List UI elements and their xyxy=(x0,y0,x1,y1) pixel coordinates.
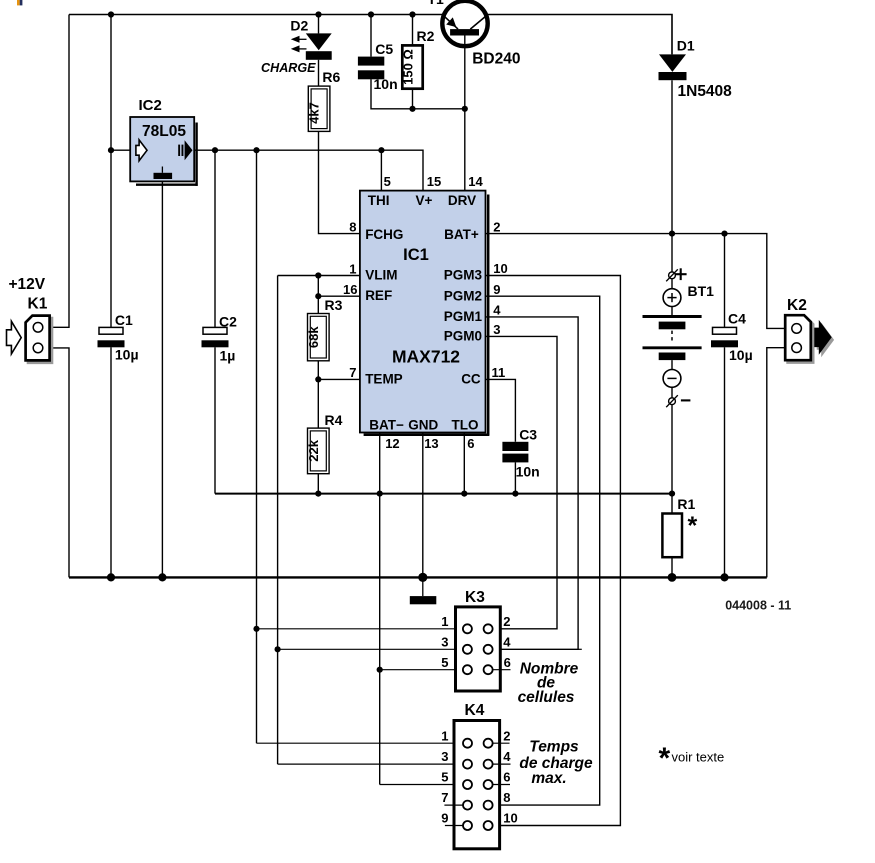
wire TLO pin 6 to BAT- xyxy=(463,433,465,494)
svg-text:DRV: DRV xyxy=(448,193,476,208)
junction dot 5V / THI pin 5 xyxy=(378,147,384,153)
wire BAT- net horizontal xyxy=(215,493,672,495)
svg-text:8: 8 xyxy=(349,219,356,234)
svg-text:D2: D2 xyxy=(290,18,308,34)
svg-text:9: 9 xyxy=(493,282,500,297)
wire IC2 input from C1 column xyxy=(111,149,130,151)
svg-text:7: 7 xyxy=(349,365,356,380)
wire C3 to BAT- xyxy=(514,462,516,493)
svg-text:1N5408: 1N5408 xyxy=(678,83,733,100)
op-amp/controller IC1 MAX712 body xyxy=(487,195,490,436)
svg-text:PGM0: PGM0 xyxy=(444,329,482,344)
junction dot top rail / C1 column xyxy=(108,11,114,17)
wire PGM0 pin 3 to K3 pin 2 xyxy=(486,336,558,628)
junction dot 5V / K-header column xyxy=(253,147,259,153)
svg-text:4: 4 xyxy=(503,749,511,764)
wire D2 cathode to R6 xyxy=(318,60,320,86)
svg-text:max.: max. xyxy=(531,770,566,787)
svg-text:1: 1 xyxy=(349,261,356,276)
connector K4 xyxy=(454,721,500,849)
svg-text:9: 9 xyxy=(441,811,448,826)
junction dot rail / R1 xyxy=(668,573,677,582)
svg-text:1µ: 1µ xyxy=(220,348,236,364)
svg-text:13: 13 xyxy=(424,436,438,451)
svg-text:2: 2 xyxy=(503,728,510,743)
svg-text:K3: K3 xyxy=(465,589,485,606)
svg-text:4: 4 xyxy=(493,303,501,318)
svg-text:PGM3: PGM3 xyxy=(444,268,483,283)
wire D1 cathode to BAT+ xyxy=(671,80,673,233)
wire K3 pin 3 stub xyxy=(278,648,464,650)
wire K4 pin 3 stub xyxy=(278,763,464,765)
svg-text:K4: K4 xyxy=(465,702,485,719)
junction dot BAT- / TLO pin 6 xyxy=(461,491,467,497)
voltage regulator IC2 78L05 xyxy=(195,123,197,186)
junction dot VLIM / R3 top xyxy=(315,272,321,278)
svg-text:MAX712: MAX712 xyxy=(392,346,460,366)
svg-text:5: 5 xyxy=(441,655,448,670)
svg-text:6: 6 xyxy=(504,655,511,670)
wire K3 pin 5 stub xyxy=(380,669,464,671)
junction dot rail / C1 xyxy=(107,573,115,581)
svg-text:R4: R4 xyxy=(325,412,343,428)
resistor R3 68k xyxy=(308,314,330,361)
svg-text:22k: 22k xyxy=(306,439,321,461)
junction dot BAT- / R4 xyxy=(315,491,321,497)
wire C4 column xyxy=(724,234,726,328)
svg-text:10: 10 xyxy=(493,261,507,276)
connector K2 xyxy=(788,318,814,363)
svg-text:1: 1 xyxy=(441,614,448,629)
svg-text:044008 - 11: 044008 - 11 xyxy=(725,598,791,612)
svg-text:3: 3 xyxy=(441,634,448,649)
wire REF pin 16 line xyxy=(318,295,360,297)
svg-text:BT1: BT1 xyxy=(688,283,715,299)
resistor R6 4k7 xyxy=(308,86,330,131)
wire K1 pin2 to ground rail xyxy=(43,348,69,578)
wire GND pin 13 to rail xyxy=(422,433,424,578)
svg-text:cellules: cellules xyxy=(518,689,575,706)
svg-text:CHARGE: CHARGE xyxy=(261,61,316,75)
svg-text:FCHG: FCHG xyxy=(365,227,403,242)
wire R2 bottom lead xyxy=(412,89,414,109)
capacitor C5 10n xyxy=(358,57,384,66)
K4 open stubs xyxy=(493,742,510,744)
svg-text:C5: C5 xyxy=(375,41,393,57)
IC2 ground tab xyxy=(161,167,163,173)
resistor R1 (voir texte) xyxy=(662,514,682,558)
wire PGM2 pin 9 to K4 pin 8 xyxy=(486,296,600,805)
svg-text:IC1: IC1 xyxy=(403,246,429,264)
svg-text:GND: GND xyxy=(408,418,438,433)
resistor R2 150 ohm xyxy=(402,45,422,88)
wire bottom ground rail xyxy=(69,576,767,578)
svg-text:10µ: 10µ xyxy=(115,347,139,363)
wire battery minus to R1 xyxy=(671,494,673,514)
junction dot BAT- / pin 12 column xyxy=(377,491,383,497)
wire +12V top rail (left of T1) xyxy=(69,14,444,16)
svg-text:BAT−: BAT− xyxy=(369,418,404,433)
svg-text:TEMP: TEMP xyxy=(365,372,403,387)
svg-text:BAT+: BAT+ xyxy=(444,227,479,242)
svg-text:R6: R6 xyxy=(322,69,340,85)
wire K1 pin1 to +12V rail xyxy=(43,15,69,328)
connector K1 xyxy=(28,318,52,363)
junction dot REF / R3 column xyxy=(315,293,321,299)
wire PGM1 pin 4 to K3 pin 4 xyxy=(486,317,579,649)
junction dot BAT+ / battery xyxy=(669,231,675,237)
wire R1 to rail xyxy=(671,557,673,577)
svg-text:2: 2 xyxy=(493,219,500,234)
IC2 input arrow pin xyxy=(136,140,147,161)
wire T1 base to DRV pin 14 xyxy=(464,36,466,191)
svg-text:150 Ω: 150 Ω xyxy=(401,49,416,85)
junction dot pin12 column / K3 pin5 xyxy=(377,667,383,673)
svg-text:*: * xyxy=(688,512,698,540)
wire C5 from rail xyxy=(370,15,372,57)
svg-text:68k: 68k xyxy=(306,326,321,348)
wire top rail collector side to D1 xyxy=(486,15,672,55)
wire D2 anode from rail xyxy=(318,15,320,34)
svg-text:10: 10 xyxy=(503,811,517,826)
K3 pin 6 open stub xyxy=(493,669,511,671)
IC2 output arrow pin xyxy=(178,145,180,156)
transistor T1 BD240 (PNP) xyxy=(442,1,487,46)
wire TEMP pin 7 line xyxy=(318,378,360,380)
svg-text:16: 16 xyxy=(343,282,357,297)
junction dot top rail / C5 column xyxy=(368,11,374,17)
junction dot base line / T1 base xyxy=(462,106,468,112)
junction dot VLIM column / K3 pin3 xyxy=(275,646,281,652)
svg-text:4: 4 xyxy=(503,634,511,649)
svg-text:1: 1 xyxy=(441,728,448,743)
svg-text:V+: V+ xyxy=(416,193,433,208)
capacitor C3 10n xyxy=(502,442,528,451)
junction dot rail / C4 xyxy=(720,573,728,581)
wire IC2 ground to rail xyxy=(161,181,163,577)
junction dot base line / R2 xyxy=(409,106,415,112)
svg-text:TLO: TLO xyxy=(452,418,479,433)
battery BT1 xyxy=(671,234,673,272)
svg-text:C4: C4 xyxy=(728,310,746,326)
svg-text:8: 8 xyxy=(503,790,510,805)
junction dot BAT- / battery R1 xyxy=(669,491,675,497)
wire THI pin 5 stub xyxy=(380,150,382,190)
svg-text:10n: 10n xyxy=(374,76,398,92)
svg-text:R2: R2 xyxy=(417,28,435,44)
wire K3 pin 1 stub xyxy=(257,628,464,630)
svg-text:Temps: Temps xyxy=(529,738,579,755)
svg-text:6: 6 xyxy=(503,770,510,785)
svg-text:R1: R1 xyxy=(677,496,695,512)
svg-text:C1: C1 xyxy=(115,312,133,328)
capacitor C2 xyxy=(203,327,227,334)
junction dot BAT- / C3 xyxy=(512,491,518,497)
output arrow symbol at K2 xyxy=(817,323,834,358)
junction dot C1 / IC2 input xyxy=(108,147,114,153)
wire 5V column down to K3 pin1 / K4 pin1 xyxy=(256,150,258,743)
svg-text:3: 3 xyxy=(493,322,500,337)
svg-text:CC: CC xyxy=(461,372,481,387)
capacitor C4 10u xyxy=(713,327,737,334)
LED emission arrows xyxy=(299,38,306,40)
wire K2 pin2 to rail xyxy=(767,348,785,578)
junction dot top rail / D2 column xyxy=(315,11,321,17)
wire R2 from rail xyxy=(412,15,414,46)
svg-text:voir texte: voir texte xyxy=(672,750,725,765)
wire R3 top lead xyxy=(317,276,319,314)
svg-text:2: 2 xyxy=(503,614,510,629)
svg-text:K2: K2 xyxy=(787,297,807,314)
svg-text:7: 7 xyxy=(441,790,448,805)
svg-text:14: 14 xyxy=(468,174,483,189)
resistor R4 22k xyxy=(308,428,330,474)
wire VLIM pin 1 line xyxy=(278,275,360,277)
svg-text:C3: C3 xyxy=(519,427,537,443)
svg-text:R3: R3 xyxy=(325,297,343,313)
wire BAT- pin 12 column down to K3/K4 pin5 xyxy=(379,433,381,785)
input arrow symbol at K1 xyxy=(7,321,22,354)
svg-text:PGM2: PGM2 xyxy=(444,288,482,303)
svg-text:VLIM: VLIM xyxy=(365,268,397,283)
diode D1 1N5408 xyxy=(659,54,686,72)
svg-text:4k7: 4k7 xyxy=(307,102,322,124)
junction dot rail / IC2 ground xyxy=(158,573,166,581)
wire R4 bottom lead xyxy=(317,474,319,494)
wire VLIM column down to K3 pin3 / K4 pin3 xyxy=(277,276,279,765)
svg-text:BD240: BD240 xyxy=(472,51,520,68)
page margin mark (cropped glyph, top-left) xyxy=(17,0,20,5)
svg-text:11: 11 xyxy=(492,365,506,380)
wire BAT+ pin 2 to battery / C4 / K2 xyxy=(486,234,786,329)
wire R3-R4 middle lead xyxy=(317,361,319,428)
junction dot 5V / C2 xyxy=(212,147,218,153)
svg-text:T1: T1 xyxy=(428,0,445,7)
junction dot BAT+ / C4 xyxy=(721,231,727,237)
svg-text:*: * xyxy=(659,742,671,775)
wire R6 to FCHG pin 8 xyxy=(319,131,360,233)
svg-text:REF: REF xyxy=(365,288,392,303)
svg-text:K1: K1 xyxy=(28,296,48,313)
svg-text:15: 15 xyxy=(427,174,441,189)
connector K3 xyxy=(456,607,501,691)
wire PGM3 pin 10 to K4 pin 10 xyxy=(486,276,621,826)
svg-text:12: 12 xyxy=(385,436,399,451)
junction dot TEMP / divider xyxy=(315,376,321,382)
svg-text:THI: THI xyxy=(368,193,390,208)
svg-text:10µ: 10µ xyxy=(729,347,753,363)
svg-text:D1: D1 xyxy=(677,37,695,53)
junction dot top rail / R2 column xyxy=(409,11,415,17)
wire K4 pin 1 stub xyxy=(257,742,464,744)
svg-text:78L05: 78L05 xyxy=(142,123,186,140)
wire corner tick xyxy=(578,648,582,650)
wire C5 to base node xyxy=(371,79,465,109)
wire CC pin 11 to C3 xyxy=(486,379,516,441)
svg-text:IC2: IC2 xyxy=(139,97,162,114)
junction dot rail / GND pin 13 xyxy=(418,573,427,582)
wire C1 column xyxy=(110,15,112,328)
LED D2 xyxy=(306,33,332,50)
svg-text:6: 6 xyxy=(467,436,474,451)
svg-text:3: 3 xyxy=(441,749,448,764)
svg-text:5: 5 xyxy=(441,770,448,785)
wire 5V line from IC2 to V+ pin 15 xyxy=(194,150,423,190)
svg-text:+12V: +12V xyxy=(9,276,46,293)
junction dot 5V column / K3 pin1 xyxy=(253,626,259,632)
svg-text:PGM1: PGM1 xyxy=(444,309,483,324)
svg-text:C2: C2 xyxy=(219,314,237,330)
capacitor C1 xyxy=(99,327,123,334)
svg-text:5: 5 xyxy=(384,174,391,189)
svg-text:10n: 10n xyxy=(516,464,540,480)
ground symbol xyxy=(422,577,424,596)
wire C2 column xyxy=(214,150,216,327)
wire K4 pin 5 stub xyxy=(380,784,464,786)
